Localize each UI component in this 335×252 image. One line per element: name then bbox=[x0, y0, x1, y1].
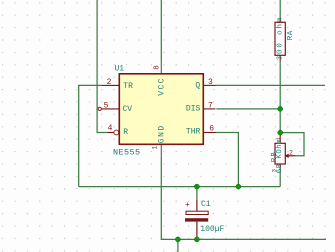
IC U1 NE555 body bbox=[119, 74, 203, 145]
svg-text:8: 8 bbox=[154, 65, 162, 70]
junction C1 top bbox=[194, 184, 199, 189]
label NE555 bbox=[113, 148, 141, 158]
junction C1 bottom bbox=[194, 237, 199, 242]
pin 5 CV bbox=[98, 101, 119, 110]
pin 3 Q bbox=[203, 78, 215, 87]
wire THR pin 6 down to bottom net bbox=[216, 133, 238, 187]
junction ground stub bbox=[175, 237, 180, 242]
junction RA/RB wiper bbox=[278, 130, 283, 135]
svg-text:C1: C1 bbox=[201, 200, 211, 209]
wire GND pin 1 to ground rail bbox=[161, 144, 326, 239]
svg-text:Q: Q bbox=[195, 82, 200, 91]
wire ground stub down bbox=[177, 239, 179, 252]
wire VCC rail drop to U1 pin 8 bbox=[160, 0, 162, 74]
wire TR pin 2 to bottom net bbox=[79, 85, 102, 186]
wire RB pin 3 to bottom net bbox=[279, 170, 281, 187]
pin 1 GND number bbox=[151, 146, 158, 150]
svg-text:2: 2 bbox=[107, 78, 112, 87]
pin 1 number (RB) bbox=[275, 136, 282, 140]
svg-text:+: + bbox=[185, 201, 190, 210]
svg-text:68 KOhm: 68 KOhm bbox=[276, 139, 284, 173]
resistor RA bbox=[275, 18, 285, 62]
svg-text:6: 6 bbox=[209, 125, 214, 134]
label C1 bbox=[201, 200, 211, 209]
pin 7 DIS bbox=[203, 102, 215, 111]
wire VCC rail drop to R pin 4 net bbox=[97, 0, 107, 133]
value 100uF (C1) bbox=[200, 225, 224, 234]
svg-text:RA: RA bbox=[287, 30, 295, 40]
value 68 KOhm (RB) bbox=[276, 139, 284, 173]
pin name Q bbox=[195, 82, 200, 91]
wire DIS pin 7 to RA bottom bbox=[216, 108, 280, 110]
svg-text:2: 2 bbox=[289, 150, 293, 157]
wire RB wiper loop bbox=[280, 133, 304, 156]
pin name VCC bbox=[158, 77, 167, 96]
label RB bbox=[271, 151, 279, 162]
svg-text:GND: GND bbox=[158, 124, 167, 143]
wire bottom horizontal net THR/TR/C1 bbox=[79, 186, 281, 188]
wire RA bottom vertical to pot junction bbox=[279, 61, 281, 133]
wire C1 top lead bbox=[196, 187, 198, 200]
pin 2 number (RB wiper) bbox=[289, 150, 293, 157]
wire RA top to VCC rail bbox=[279, 0, 281, 18]
svg-text:VCC: VCC bbox=[158, 77, 167, 96]
svg-text:R: R bbox=[123, 128, 128, 137]
svg-text:300 ohm: 300 ohm bbox=[276, 16, 284, 61]
junction THR/bottom net bbox=[236, 184, 241, 189]
junction DIS/RA bbox=[278, 106, 283, 111]
pin 6 THR bbox=[203, 125, 216, 134]
value 300 ohm (RA) bbox=[276, 16, 284, 61]
pin name DIS bbox=[186, 104, 201, 113]
pin 8 VCC stub bbox=[154, 65, 162, 70]
svg-text:NE555: NE555 bbox=[113, 148, 141, 158]
pin 4 R (inverted) bbox=[108, 124, 119, 135]
svg-text:U1: U1 bbox=[115, 65, 125, 74]
capacitor C1 bbox=[185, 200, 208, 238]
plus sign (C1 polarity) bbox=[185, 201, 190, 210]
label U1 bbox=[115, 65, 125, 74]
svg-text:4: 4 bbox=[108, 124, 113, 133]
potentiometer RB bbox=[275, 133, 295, 170]
label RA bbox=[287, 30, 295, 40]
pin name CV bbox=[123, 105, 133, 114]
svg-text:TR: TR bbox=[123, 82, 133, 91]
wire C1 bottom lead bbox=[196, 237, 198, 239]
svg-text:5: 5 bbox=[104, 101, 109, 110]
pin 3 number (RB) bbox=[270, 169, 277, 172]
svg-text:CV: CV bbox=[123, 105, 133, 114]
svg-text:7: 7 bbox=[208, 102, 213, 111]
svg-text:3: 3 bbox=[208, 78, 213, 87]
pin name THR bbox=[186, 127, 201, 136]
pin 2 TR bbox=[102, 78, 120, 87]
pin name R bbox=[123, 128, 128, 137]
svg-text:1: 1 bbox=[151, 146, 158, 150]
svg-text:100µF: 100µF bbox=[200, 225, 224, 234]
pin name TR bbox=[123, 82, 133, 91]
pin name GND bbox=[158, 124, 167, 143]
svg-text:THR: THR bbox=[186, 127, 201, 136]
wire Q pin 3 output bbox=[216, 84, 326, 86]
svg-text:DIS: DIS bbox=[186, 104, 201, 113]
